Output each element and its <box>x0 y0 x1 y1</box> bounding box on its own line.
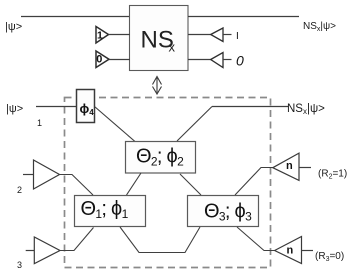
wire mode 1 input <box>36 106 77 108</box>
detector triangle 0 <box>211 53 223 68</box>
detector n (R2) <box>273 153 299 180</box>
svg-text:I: I <box>236 31 239 42</box>
svg-text:NSx|ψ>: NSx|ψ> <box>303 21 336 33</box>
svg-text:Θ3; ϕ3: Θ3; ϕ3 <box>204 201 252 224</box>
beam splitter box Theta2 <box>126 142 196 174</box>
svg-text:n: n <box>287 245 294 257</box>
wire BS2 to BS3 <box>180 174 201 195</box>
wire NSx to detector I <box>188 34 211 36</box>
beam splitter box Theta1 <box>75 196 146 227</box>
wire NSx to detector O <box>188 59 211 61</box>
detector n (R3) <box>275 237 302 264</box>
wire triangle-0 to NSx <box>109 59 130 61</box>
svg-text:Θ1; ϕ1: Θ1; ϕ1 <box>81 198 129 221</box>
svg-text:1: 1 <box>37 118 42 128</box>
wire BS1 to BS2 <box>127 173 142 195</box>
svg-text:x: x <box>169 40 176 55</box>
ancilla source triangle 3 <box>26 250 35 252</box>
wire input |psi> to NSx box <box>21 16 130 18</box>
beam splitter box Theta3 <box>188 196 259 227</box>
wire NSx output to label <box>188 16 299 18</box>
detector triangle I <box>211 28 223 42</box>
wire mode 2 to BS1 <box>60 175 94 196</box>
equivalence double arrow <box>153 77 162 95</box>
svg-text:|ψ>: |ψ> <box>6 103 23 115</box>
svg-text:1: 1 <box>97 30 103 42</box>
ancilla source triangle 0 <box>96 51 109 68</box>
wire BS1 to BS3 (bottom run) <box>120 227 200 253</box>
svg-text:NSx|ψ>: NSx|ψ> <box>287 103 325 116</box>
wire Phi4 to BS2 <box>95 107 136 142</box>
phase shifter Phi4 <box>77 90 95 123</box>
wire triangle-1 to NSx <box>109 34 131 36</box>
svg-text:(R2=1): (R2=1) <box>318 169 347 181</box>
ancilla source triangle 1 <box>96 27 109 44</box>
ancilla source triangle 2 <box>23 174 34 176</box>
wire BS2 to exit <box>177 107 212 142</box>
svg-text:(R3=0): (R3=0) <box>315 251 344 263</box>
svg-text:0: 0 <box>96 54 102 66</box>
NS gate box U1 <box>130 6 189 71</box>
wire BS3 to detector R3 <box>237 227 275 251</box>
wire BS3 to detector R2 <box>235 168 273 196</box>
dashed implementation box <box>65 98 271 268</box>
svg-text:0: 0 <box>236 53 244 69</box>
wire mode 3 to BS1 <box>60 228 94 251</box>
svg-text:2: 2 <box>17 185 22 195</box>
svg-text:3: 3 <box>17 260 22 270</box>
svg-text:n: n <box>286 160 293 172</box>
svg-text:Θ2; ϕ2: Θ2; ϕ2 <box>136 146 184 169</box>
svg-text:|ψ>: |ψ> <box>5 21 22 33</box>
